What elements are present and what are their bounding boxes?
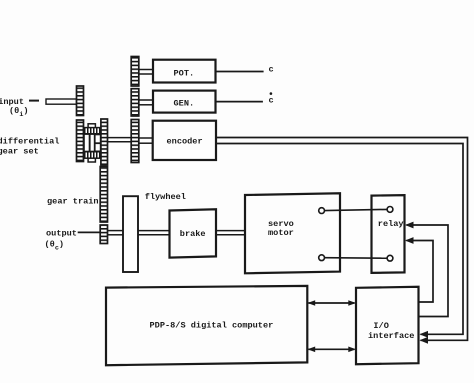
svg-text:gear set: gear set — [0, 147, 39, 157]
svg-text:brake: brake — [180, 229, 206, 239]
svg-text:interface: interface — [368, 331, 414, 341]
svg-text:(θi): (θi) — [9, 106, 29, 119]
svg-text:flywheel: flywheel — [145, 192, 186, 202]
svg-text:output: output — [46, 228, 77, 238]
svg-text:motor: motor — [268, 228, 294, 238]
svg-text:(θc): (θc) — [45, 239, 65, 252]
svg-text:I/O: I/O — [373, 321, 388, 331]
svg-text:encoder: encoder — [167, 136, 203, 146]
svg-text:differential: differential — [0, 136, 59, 146]
svg-text:c: c — [269, 95, 274, 105]
svg-text:GEN.: GEN. — [174, 99, 195, 109]
svg-text:relay: relay — [378, 219, 404, 229]
svg-text:PDP-8/S digital computer: PDP-8/S digital computer — [150, 321, 274, 331]
svg-text:c: c — [269, 65, 274, 75]
svg-text:gear train: gear train — [47, 196, 99, 206]
svg-text:POT.: POT. — [174, 68, 195, 78]
